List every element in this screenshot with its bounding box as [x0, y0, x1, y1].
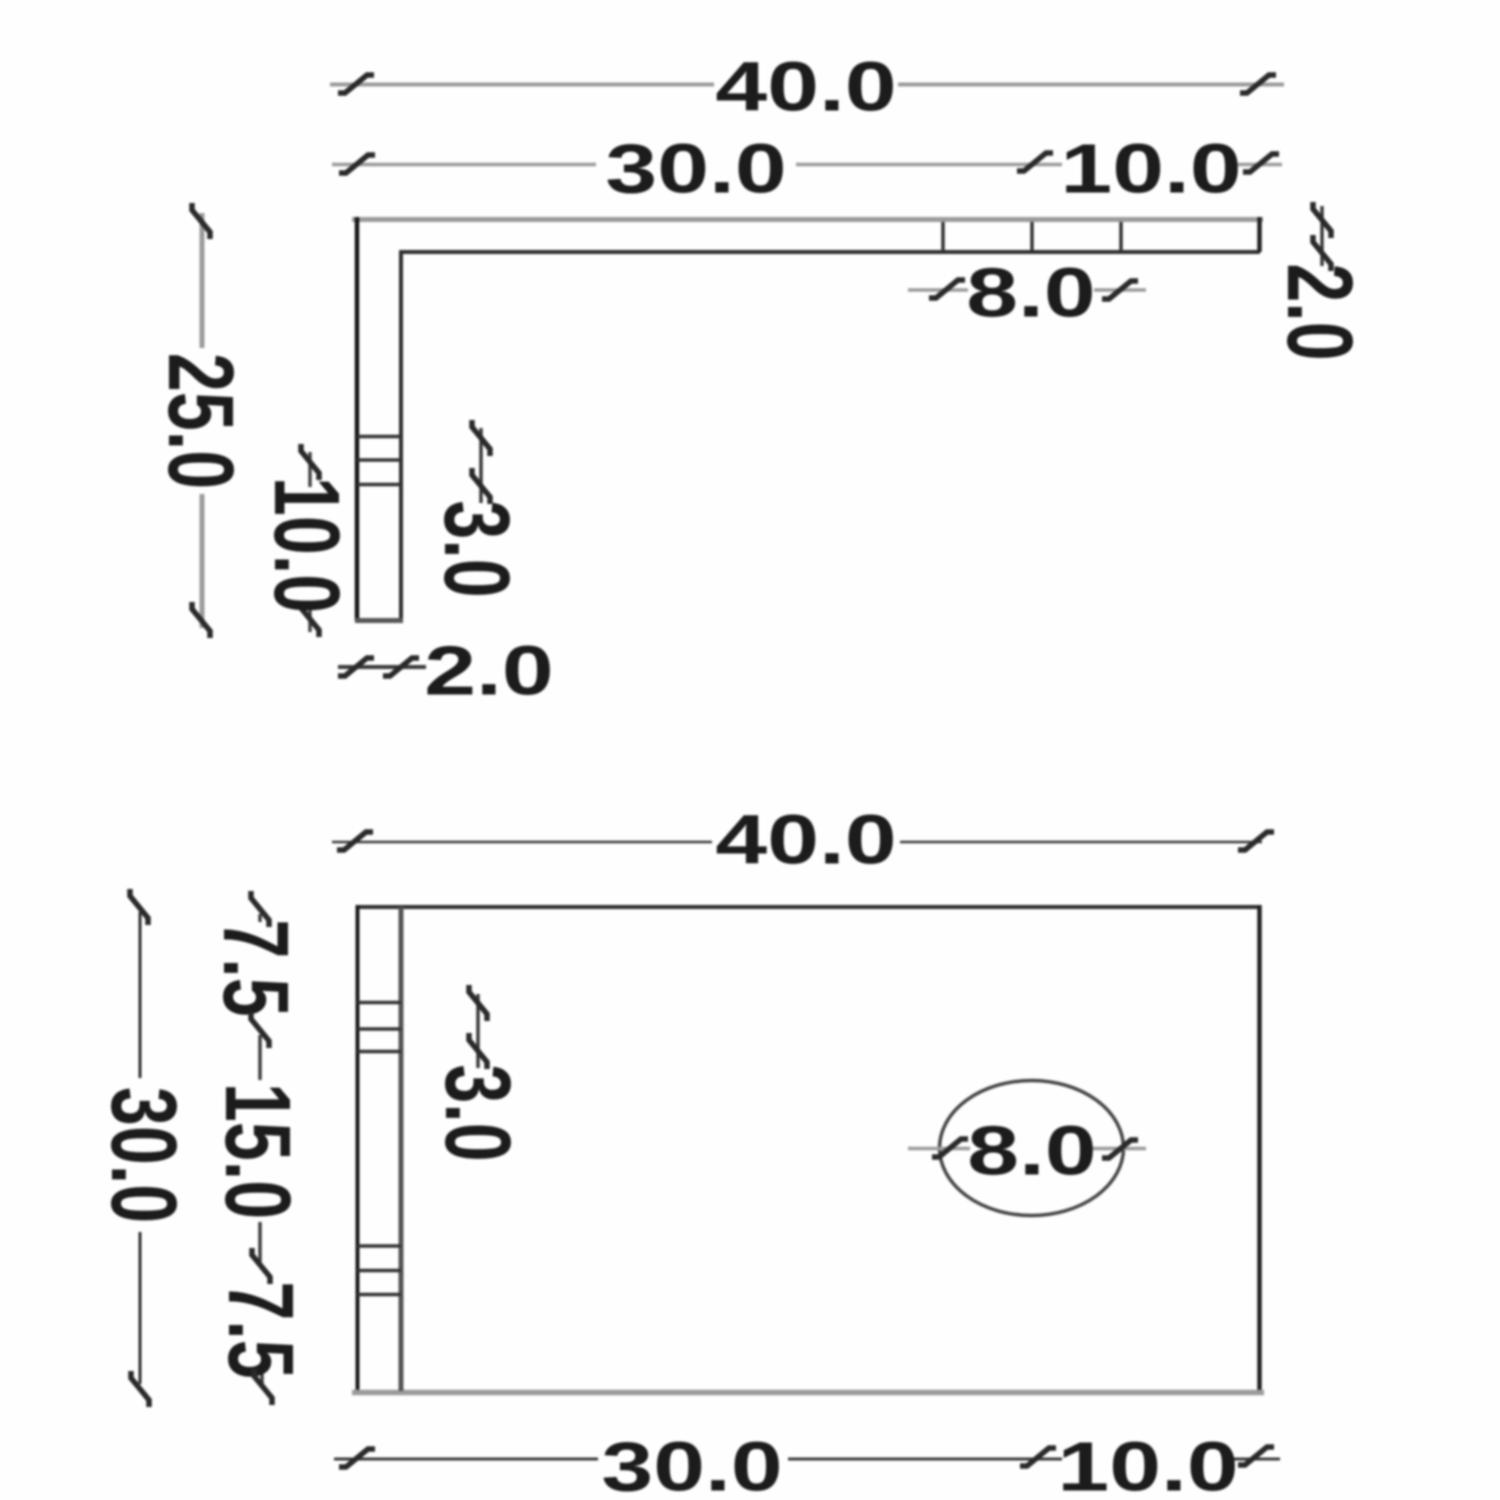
dim 2.0 right: dimension line: [1320, 206, 1324, 266]
bottom view: upper slot top line: [357, 1001, 401, 1005]
dim 40.0 bottom view: right tick: [1238, 832, 1274, 850]
dim 40.0 top: right tick: [1240, 75, 1276, 93]
top view: hole projection tick center: [1030, 222, 1034, 251]
dim 8.0 top: right tick: [1102, 281, 1138, 299]
svg-text:10.0: 10.0: [1057, 1428, 1238, 1500]
dim 30.0 left of bottom view: bottom tick: [131, 1371, 149, 1407]
dim 10.0 bottom: right tick: [1238, 1447, 1274, 1465]
bottom view: lower slot bottom line: [357, 1293, 401, 1297]
bottom view: upper slot center line: [357, 1027, 401, 1031]
dim 2.0 bottom of leg: right tick: [383, 658, 419, 676]
svg-text:25.0: 25.0: [149, 353, 253, 489]
dim 30.0 bottom: left tick: [339, 1449, 375, 1467]
bottom view: hole (ellipse): [940, 1081, 1124, 1216]
bottom view: lower slot top line: [357, 1244, 401, 1248]
dim chain: tick at plate top: [251, 891, 269, 927]
dim 10.0 left: dimension line: [308, 452, 312, 487]
dim 8.0 top: dimension line stubs: [908, 288, 968, 292]
bottom view: bend line: [399, 907, 404, 1391]
dim 3.0 slot bottom view: upper tick: [469, 985, 487, 1021]
svg-text:30.0: 30.0: [605, 130, 786, 208]
dim 3.0 slot bottom view: lower tick: [469, 1033, 487, 1069]
dim 2.0 right: lower tick: [1313, 235, 1331, 271]
svg-text:8.0: 8.0: [967, 1112, 1096, 1190]
dim chain 7.5/15.0/7.5: dimension line: [258, 914, 262, 922]
bottom view: plate bottom edge: [352, 1390, 1264, 1396]
top view: right end cap of horizontal leg: [1257, 217, 1262, 252]
dim 3.0 slot bottom view: dimension line: [476, 994, 480, 1068]
dim 40.0 bottom view: left tick: [337, 832, 373, 850]
dim 40.0 top: left tick: [338, 75, 374, 93]
bottom view: lower slot center line: [357, 1269, 401, 1273]
dim 40.0 bottom view: dimension line: [332, 841, 712, 844]
top view: L-profile outer top edge: [352, 217, 1263, 222]
dim 30.0/10.0 bottom: middle tick: [1020, 1448, 1056, 1466]
top view: slot projection line lower: [357, 483, 401, 487]
top view: hole projection tick left: [941, 222, 945, 251]
dim chain: tick at lower slot center: [252, 1248, 270, 1284]
dim 30.0 left of bottom view: dimension line: [139, 912, 142, 1078]
dim 10.0 top: right tick: [1243, 154, 1279, 172]
dim 3.0 slot top view: upper tick: [472, 420, 490, 456]
dim 8.0 hole: right tick: [1102, 1140, 1138, 1158]
dim 2.0 bottom of leg: left tick: [338, 658, 374, 676]
dim 8.0 top: left tick: [929, 280, 965, 298]
top view: L-profile outer left edge: [355, 217, 360, 621]
dim 2.0 right: upper tick: [1313, 202, 1331, 238]
dim chain: tick at upper slot center: [251, 1012, 269, 1048]
dim 3.0 slot top view: lower tick: [472, 468, 490, 504]
top view: L-profile inner vertical edge: [399, 252, 403, 619]
dim 40.0 top: dimension line: [330, 83, 714, 87]
dim 10.0 left: top tick: [301, 444, 319, 480]
svg-text:2.0: 2.0: [424, 632, 553, 710]
dim 8.0 hole: left tick: [932, 1139, 968, 1157]
bottom view: upper slot bottom line: [357, 1050, 401, 1054]
top view: L-profile inner horizontal edge: [399, 250, 1260, 254]
dim chain: tick at plate bottom: [254, 1369, 272, 1405]
dim 25.0 left: bottom tick: [192, 602, 210, 638]
svg-text:7.5: 7.5: [204, 919, 308, 1016]
dim 30.0 bottom: dimension line: [334, 1458, 598, 1461]
top view: bottom cap of vertical leg: [355, 618, 403, 623]
svg-text:10.0: 10.0: [1060, 130, 1241, 208]
svg-text:15.0: 15.0: [206, 1083, 310, 1219]
top view: slot projection line middle: [357, 458, 401, 462]
top view: hole projection tick right: [1119, 222, 1123, 251]
dim 30.0/10.0 top: middle tick: [1017, 153, 1053, 171]
svg-text:7.5: 7.5: [209, 1281, 313, 1378]
svg-text:40.0: 40.0: [715, 48, 896, 126]
svg-text:3.0: 3.0: [425, 500, 529, 597]
top view: slot projection line upper: [357, 435, 401, 439]
dim 3.0 slot top view: dimension line: [479, 428, 483, 503]
dim 30.0 top: dimension line: [332, 163, 596, 167]
dim 2.0 bottom of leg: dimension line: [338, 665, 426, 669]
dim 25.0 left: top tick: [192, 203, 210, 239]
bottom view: plate left edge: [356, 905, 360, 1393]
svg-text:10.0: 10.0: [255, 477, 359, 613]
bottom view: plate right edge: [1257, 905, 1262, 1393]
dim 8.0 hole: dimension line stubs: [908, 1147, 970, 1151]
svg-text:8.0: 8.0: [966, 254, 1095, 332]
dim 30.0 left of bottom view: top tick: [130, 889, 148, 925]
bottom view: plate top edge: [356, 905, 1261, 909]
svg-text:3.0: 3.0: [426, 1064, 530, 1161]
dim 10.0 left: bottom tick: [301, 601, 319, 637]
svg-text:30.0: 30.0: [601, 1428, 782, 1500]
dim 30.0 top: left tick: [339, 155, 375, 173]
dim 25.0 left: dimension line: [200, 213, 205, 348]
svg-text:2.0: 2.0: [1268, 263, 1372, 360]
svg-text:40.0: 40.0: [715, 801, 896, 879]
svg-text:30.0: 30.0: [92, 1087, 196, 1223]
